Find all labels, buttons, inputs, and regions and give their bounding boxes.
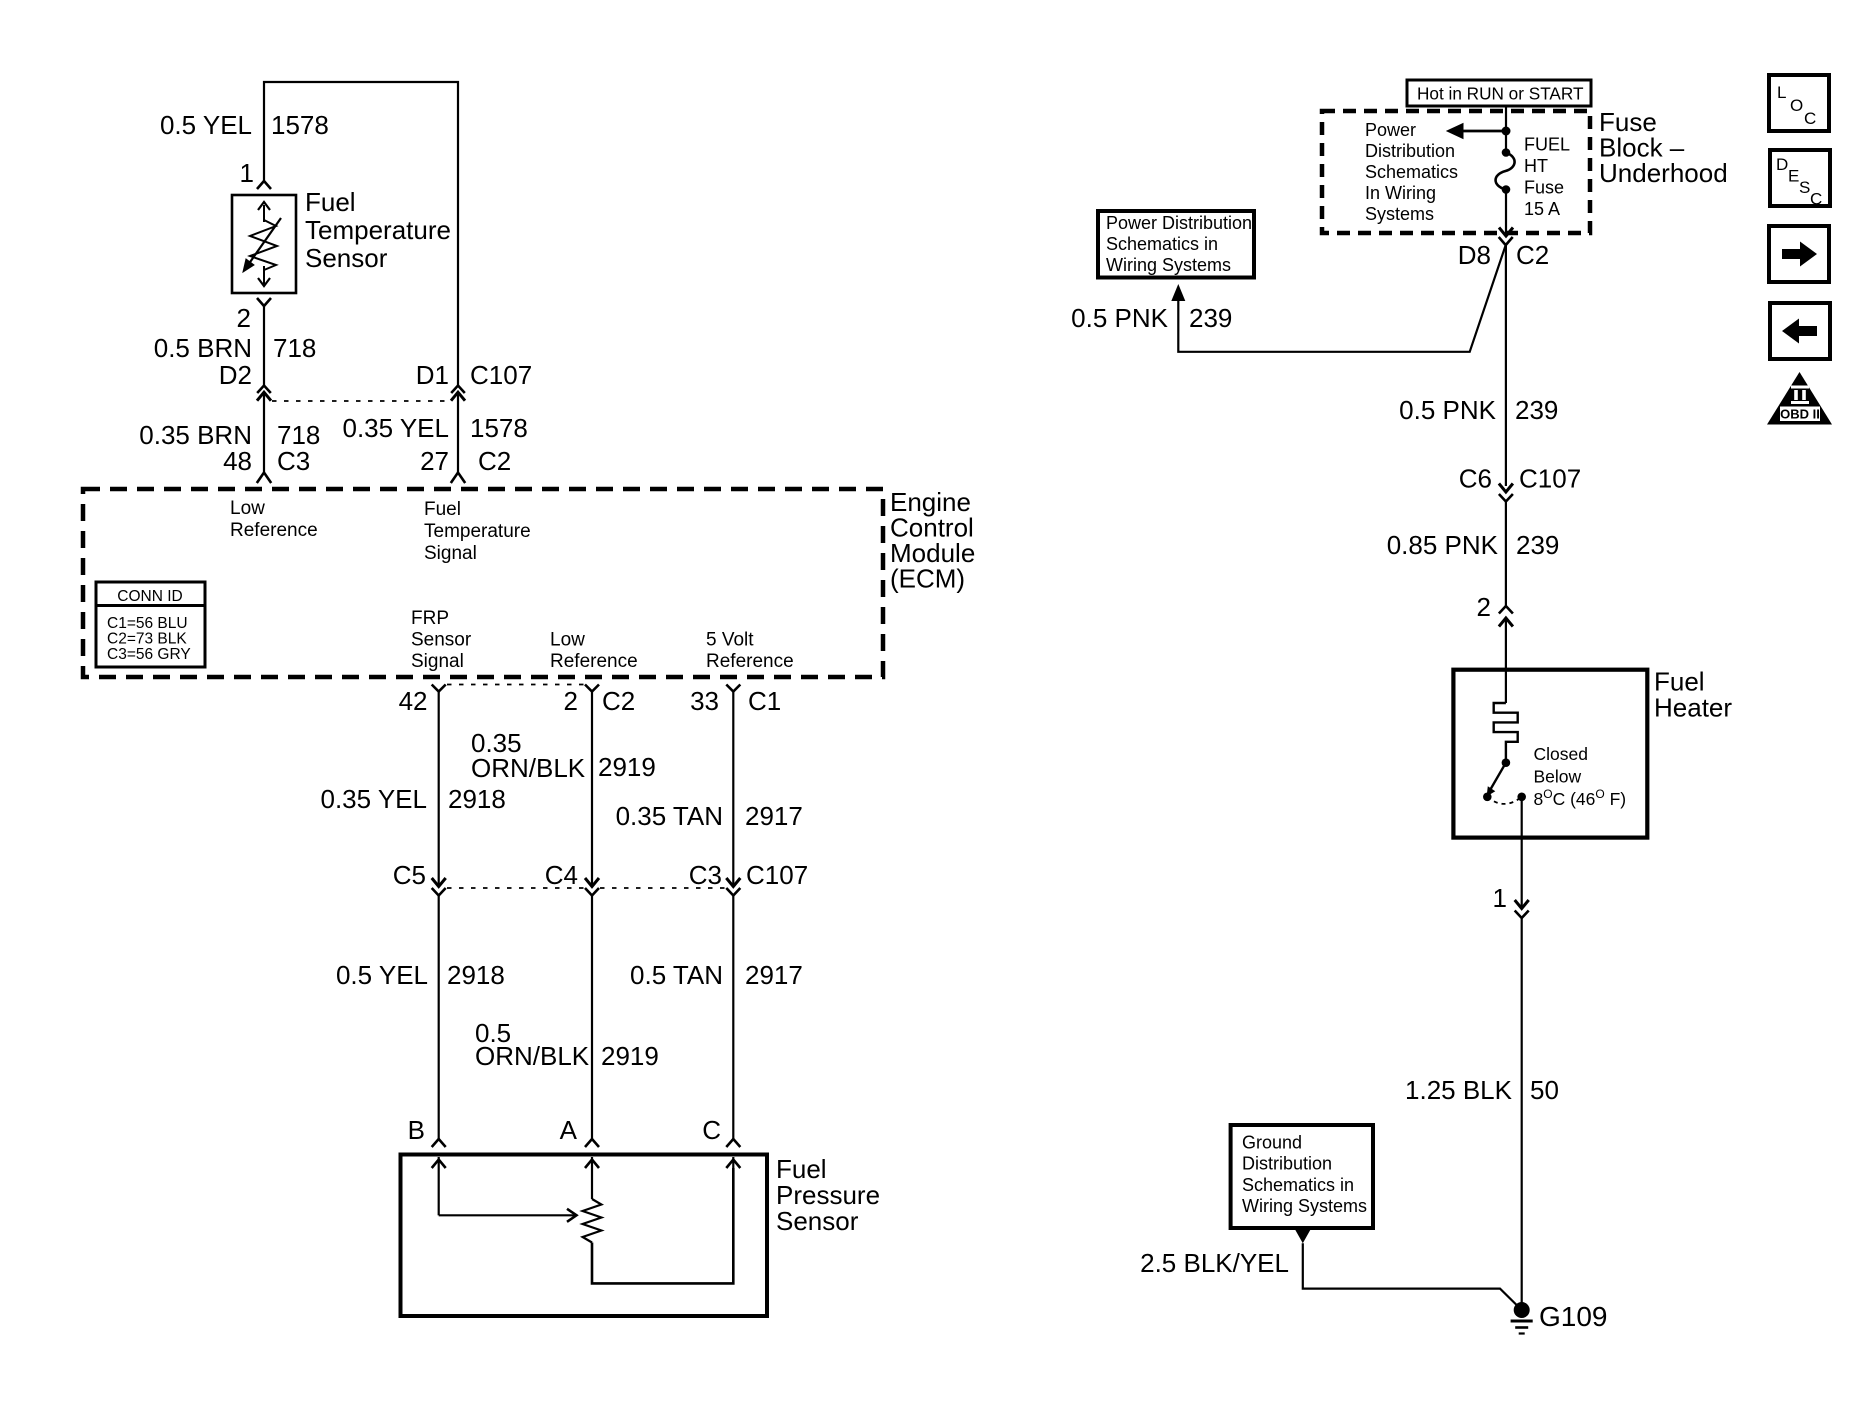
wire 239: main pink feed down <box>1505 245 1507 486</box>
svg-text:Reference: Reference <box>550 651 638 672</box>
svg-text:Signal: Signal <box>424 543 477 564</box>
svg-text:1578: 1578 <box>271 110 329 140</box>
svg-text:1: 1 <box>240 158 254 188</box>
svg-text:C107: C107 <box>746 860 808 890</box>
power distribution schematics box <box>1098 211 1254 278</box>
connector C107 C5 (arrow + fork) <box>432 878 446 896</box>
svg-text:Sensor: Sensor <box>776 1206 859 1236</box>
wire 239 branch to power distribution (diagonal + horizontal + riser) <box>1178 245 1505 352</box>
svg-text:1.25 BLK: 1.25 BLK <box>1405 1075 1513 1105</box>
ground symbol <box>1511 1321 1533 1334</box>
svg-text:Below: Below <box>1534 767 1582 787</box>
svg-text:C3=56 GRY: C3=56 GRY <box>107 646 191 663</box>
wire resistor bottom to pin C riser <box>592 1168 733 1283</box>
svg-text:Fuel: Fuel <box>424 499 461 520</box>
svg-text:Schematics: Schematics <box>1365 162 1458 182</box>
wire 2917 upper segment <box>732 692 734 885</box>
svg-text:OBD II: OBD II <box>1780 407 1820 422</box>
wire 2918 lower segment <box>438 896 440 1140</box>
svg-text:Reference: Reference <box>706 651 794 672</box>
svg-text:Reference: Reference <box>230 520 318 541</box>
wire 2919 upper segment <box>591 692 593 885</box>
svg-text:Heater: Heater <box>1654 692 1732 722</box>
svg-text:Power: Power <box>1365 120 1416 140</box>
junction dot at fuse feed <box>1502 127 1511 136</box>
icon forward arrow box <box>1769 226 1829 282</box>
potentiometer wiper arrow <box>439 1209 577 1222</box>
pin A connector fork <box>585 1139 599 1147</box>
svg-text:0.5 YEL: 0.5 YEL <box>160 110 252 140</box>
svg-text:2919: 2919 <box>601 1041 659 1071</box>
ECM connector C2 dashed tie line pins 42-2 <box>447 684 584 686</box>
pin 1 connector fork <box>257 181 271 189</box>
connector C107 dashed mating line D2-D1 <box>272 400 450 402</box>
svg-text:42: 42 <box>399 686 428 716</box>
svg-text:Fuse: Fuse <box>1524 178 1564 198</box>
svg-text:Underhood: Underhood <box>1599 158 1728 188</box>
svg-text:E: E <box>1788 167 1799 186</box>
pin C connector fork <box>726 1139 740 1147</box>
thermistor element (variable resistor with arrows) <box>250 202 277 286</box>
svg-text:C2: C2 <box>602 686 635 716</box>
wire 1578: sensor pin1 loop to connector C107 D1 <box>264 82 458 386</box>
wire from switch to heater pin 1 <box>1521 797 1523 908</box>
fuel pressure sensor box <box>401 1155 768 1317</box>
svg-text:D2: D2 <box>219 360 252 390</box>
svg-text:0.85 PNK: 0.85 PNK <box>1387 530 1499 560</box>
svg-text:2918: 2918 <box>448 784 506 814</box>
pin B terminal arrow inside box <box>432 1157 446 1215</box>
wire 2917 lower segment <box>732 896 734 1140</box>
svg-text:CONN ID: CONN ID <box>117 588 182 605</box>
svg-text:0.5 YEL: 0.5 YEL <box>336 960 428 990</box>
svg-text:G109: G109 <box>1539 1301 1608 1332</box>
ECM pin 33 connector fork <box>726 685 740 692</box>
svg-text:C2=73 BLK: C2=73 BLK <box>107 631 187 648</box>
svg-text:Ground: Ground <box>1242 1133 1302 1153</box>
svg-text:C1=56 BLU: C1=56 BLU <box>107 615 188 632</box>
wire 239: 0.85 segment to fuel heater <box>1505 502 1507 607</box>
svg-text:Distribution: Distribution <box>1365 141 1455 161</box>
svg-text:(ECM): (ECM) <box>890 564 965 594</box>
svg-text:Wiring Systems: Wiring Systems <box>1106 255 1231 275</box>
heater element meander <box>1494 703 1518 763</box>
arrow from ground distribution box <box>1295 1229 1311 1243</box>
CONN ID table box <box>96 582 205 667</box>
connector C107 D2 (fork + arrow) <box>257 386 271 401</box>
ECM pin 27 connector fork <box>451 473 465 484</box>
wire 50: heater to ground <box>1521 918 1523 1310</box>
svg-text:C: C <box>1810 190 1822 209</box>
svg-text:C5: C5 <box>393 860 426 890</box>
svg-text:2.5 BLK/YEL: 2.5 BLK/YEL <box>1140 1248 1289 1278</box>
svg-text:FRP: FRP <box>411 608 449 629</box>
resistor element (fuel pressure sensor) <box>583 1199 602 1243</box>
connector C2 cavity D8 fork <box>1499 237 1513 245</box>
svg-text:HT: HT <box>1524 156 1548 176</box>
pin 2 connector fork <box>257 298 271 306</box>
ECM pin 42 connector fork <box>432 685 446 692</box>
svg-text:C107: C107 <box>470 360 532 390</box>
svg-text:0.5 TAN: 0.5 TAN <box>630 960 723 990</box>
svg-text:Signal: Signal <box>411 651 464 672</box>
svg-text:2: 2 <box>237 303 251 333</box>
svg-text:239: 239 <box>1189 303 1232 333</box>
svg-text:48: 48 <box>223 446 252 476</box>
svg-text:50: 50 <box>1530 1075 1559 1105</box>
svg-text:O: O <box>1790 96 1803 115</box>
svg-text:Hot in RUN or START: Hot in RUN or START <box>1417 84 1584 104</box>
icon LOC box <box>1769 75 1829 131</box>
svg-text:Schematics in: Schematics in <box>1106 234 1218 254</box>
svg-text:D: D <box>1776 155 1788 174</box>
ground G109 junction dot <box>1514 1302 1530 1318</box>
svg-text:27: 27 <box>420 446 449 476</box>
svg-text:FUEL: FUEL <box>1524 135 1570 155</box>
svg-text:Wiring Systems: Wiring Systems <box>1242 1196 1367 1216</box>
svg-text:ORN/BLK: ORN/BLK <box>471 753 586 783</box>
icon OBD II triangle <box>1767 372 1832 425</box>
pin C terminal arrow inside box <box>726 1157 740 1168</box>
wire 2918 upper segment <box>438 692 440 885</box>
svg-text:S: S <box>1799 178 1810 197</box>
svg-text:0.35 YEL: 0.35 YEL <box>342 413 449 443</box>
wire 1578 lower segment to ECM pin 27 <box>457 392 459 472</box>
svg-text:718: 718 <box>273 333 316 363</box>
svg-text:ORN/BLK: ORN/BLK <box>475 1041 590 1071</box>
fuel heater pin 1 connector (arrow + fork) <box>1515 900 1529 918</box>
wire: fuse to fuse block edge with arrow <box>1499 190 1513 237</box>
svg-text:2: 2 <box>1477 592 1491 622</box>
svg-text:239: 239 <box>1515 395 1558 425</box>
svg-text:33: 33 <box>690 686 719 716</box>
svg-text:C2: C2 <box>478 446 511 476</box>
wire 718: sensor pin2 to connector C107 D2 <box>263 306 265 386</box>
svg-text:C: C <box>1804 109 1816 128</box>
connector C107 dashed mating line C5-C4-C3 <box>447 887 584 889</box>
svg-text:1578: 1578 <box>470 413 528 443</box>
svg-text:A: A <box>560 1115 578 1145</box>
svg-text:Low: Low <box>230 498 265 519</box>
icon DESC box <box>1770 150 1830 209</box>
wire: hot feed into fuse block <box>1505 106 1507 152</box>
svg-text:0.5 BRN: 0.5 BRN <box>154 333 252 363</box>
connector C107 D1 (fork + arrow) <box>451 386 465 401</box>
branch arrow to power distribution schematics <box>1447 124 1506 139</box>
svg-text:0.5 PNK: 0.5 PNK <box>1071 303 1168 333</box>
svg-text:0.5 PNK: 0.5 PNK <box>1399 395 1496 425</box>
thermal switch (closed below 8C) <box>1483 758 1526 804</box>
svg-text:2: 2 <box>564 686 578 716</box>
ECM pin 2 connector fork <box>585 685 599 692</box>
arrow into power distribution box <box>1171 284 1185 301</box>
fuse FUEL HT 15A symbol <box>1496 148 1515 194</box>
svg-text:2917: 2917 <box>745 801 803 831</box>
wire 2.5 BLK/YEL to ground junction <box>1303 1243 1522 1310</box>
svg-text:Sensor: Sensor <box>411 630 472 651</box>
Hot in RUN or START box <box>1407 80 1591 106</box>
pin A terminal arrow inside box <box>585 1157 599 1199</box>
connector C107 C3 (arrow + fork) <box>726 878 740 896</box>
svg-text:In Wiring: In Wiring <box>1365 183 1436 203</box>
fuse block underhood dashed box <box>1322 111 1590 233</box>
svg-text:Temperature: Temperature <box>305 215 451 245</box>
svg-text:Closed: Closed <box>1534 744 1588 764</box>
fuel temperature sensor box <box>232 195 296 293</box>
svg-text:0.35 YEL: 0.35 YEL <box>320 784 427 814</box>
svg-text:2917: 2917 <box>745 960 803 990</box>
svg-text:Schematics in: Schematics in <box>1242 1175 1354 1195</box>
wire 2919 lower segment <box>591 896 593 1140</box>
fuel heater pin 2 connector (fork + arrow) <box>1499 606 1513 627</box>
svg-text:Sensor: Sensor <box>305 243 388 273</box>
thermistor diagonal arrow <box>243 218 281 272</box>
svg-text:C: C <box>702 1115 721 1145</box>
pin B connector fork <box>432 1139 446 1147</box>
icon back arrow box <box>1770 303 1830 359</box>
svg-text:2919: 2919 <box>598 752 656 782</box>
connector C107 C6 (arrow + fork) <box>1499 484 1513 502</box>
svg-text:C107: C107 <box>1519 464 1581 494</box>
svg-text:1: 1 <box>1493 883 1507 913</box>
svg-text:C3: C3 <box>689 860 722 890</box>
svg-text:C6: C6 <box>1459 464 1492 494</box>
svg-text:B: B <box>408 1115 425 1145</box>
ground distribution schematics box <box>1231 1125 1373 1228</box>
svg-text:C2: C2 <box>1516 240 1549 270</box>
svg-text:C3: C3 <box>277 446 310 476</box>
svg-text:D8: D8 <box>1458 240 1491 270</box>
ECM engine control module dashed box <box>83 489 883 677</box>
svg-text:Low: Low <box>550 630 585 651</box>
svg-text:Systems: Systems <box>1365 204 1434 224</box>
connector C107 C4 (arrow + fork) <box>585 878 599 896</box>
svg-text:239: 239 <box>1516 530 1559 560</box>
svg-text:Fuel: Fuel <box>305 187 356 217</box>
svg-text:2918: 2918 <box>447 960 505 990</box>
wire into fuel heater <box>1505 618 1507 703</box>
ECM pin 48 connector fork <box>257 473 271 484</box>
svg-text:Power Distribution: Power Distribution <box>1106 213 1252 233</box>
svg-text:C1: C1 <box>748 686 781 716</box>
fuel heater box <box>1453 670 1647 838</box>
svg-text:15 A: 15 A <box>1524 199 1560 219</box>
svg-text:Distribution: Distribution <box>1242 1154 1332 1174</box>
svg-text:L: L <box>1777 83 1786 102</box>
svg-text:C4: C4 <box>545 860 578 890</box>
svg-text:Temperature: Temperature <box>424 521 531 542</box>
svg-text:5 Volt: 5 Volt <box>706 630 754 651</box>
wire 718 lower segment to ECM pin 48 <box>263 392 265 472</box>
svg-text:0.35 TAN: 0.35 TAN <box>616 801 723 831</box>
svg-text:D1: D1 <box>416 360 449 390</box>
